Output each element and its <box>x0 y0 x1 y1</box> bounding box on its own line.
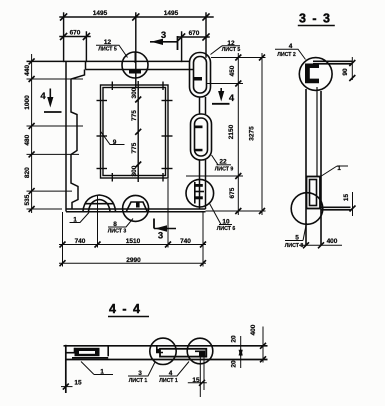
svg-text:4: 4 <box>40 91 46 102</box>
svg-text:12: 12 <box>104 39 112 46</box>
svg-text:8: 8 <box>113 221 117 228</box>
svg-text:90: 90 <box>342 68 349 76</box>
svg-text:ЛИСТ 6: ЛИСТ 6 <box>217 226 236 232</box>
svg-text:3: 3 <box>158 231 163 242</box>
svg-text:670: 670 <box>70 30 81 37</box>
svg-text:535: 535 <box>24 194 31 205</box>
svg-text:740: 740 <box>180 238 191 245</box>
svg-text:4: 4 <box>169 370 173 377</box>
svg-text:2990: 2990 <box>126 257 141 264</box>
svg-text:ЛИСТ 1: ЛИСТ 1 <box>129 378 148 384</box>
svg-text:1495: 1495 <box>93 10 108 17</box>
svg-text:22: 22 <box>219 159 227 166</box>
svg-text:775: 775 <box>131 142 138 153</box>
svg-text:12: 12 <box>227 40 235 47</box>
svg-text:ЛИСТ 3: ЛИСТ 3 <box>108 229 127 235</box>
svg-text:480: 480 <box>24 134 31 145</box>
svg-text:15: 15 <box>343 194 350 202</box>
svg-text:670: 670 <box>189 30 200 37</box>
svg-text:ЛИСТ 5: ЛИСТ 5 <box>98 46 117 52</box>
svg-text:675: 675 <box>229 187 236 198</box>
svg-text:3: 3 <box>138 370 142 377</box>
svg-text:5: 5 <box>295 235 299 242</box>
svg-text:2150: 2150 <box>228 124 235 139</box>
svg-text:9: 9 <box>113 139 117 146</box>
svg-text:1510: 1510 <box>126 238 141 245</box>
svg-text:400: 400 <box>250 324 257 335</box>
svg-text:3: 3 <box>161 30 166 41</box>
svg-text:300: 300 <box>131 87 138 98</box>
svg-text:20: 20 <box>231 335 238 343</box>
svg-text:3275: 3275 <box>249 126 256 141</box>
svg-text:20: 20 <box>231 360 238 368</box>
svg-text:15: 15 <box>74 380 82 387</box>
svg-text:ЛИСТ 1: ЛИСТ 1 <box>159 378 178 384</box>
svg-text:820: 820 <box>24 167 31 178</box>
svg-text:1000: 1000 <box>24 95 31 110</box>
svg-text:740: 740 <box>75 238 86 245</box>
svg-text:15: 15 <box>192 377 200 384</box>
svg-text:440: 440 <box>24 65 31 76</box>
svg-text:4 - 4: 4 - 4 <box>109 302 142 316</box>
svg-text:300: 300 <box>131 165 138 176</box>
svg-text:4: 4 <box>289 43 293 50</box>
svg-text:450: 450 <box>229 65 236 76</box>
svg-text:400: 400 <box>327 238 338 245</box>
svg-text:ЛИСТ 9: ЛИСТ 9 <box>215 167 234 173</box>
svg-text:ЛИСТ 2: ЛИСТ 2 <box>277 52 296 58</box>
svg-text:1: 1 <box>337 165 341 172</box>
svg-text:3 - 3: 3 - 3 <box>299 12 332 26</box>
svg-text:775: 775 <box>131 110 138 121</box>
svg-text:ЛИСТ 5: ЛИСТ 5 <box>222 47 241 53</box>
svg-text:1: 1 <box>100 369 104 376</box>
svg-text:10: 10 <box>222 219 230 226</box>
svg-text:1: 1 <box>73 217 77 224</box>
svg-text:4: 4 <box>229 93 235 104</box>
svg-text:1495: 1495 <box>164 10 179 17</box>
svg-text:ЛИСТ 8: ЛИСТ 8 <box>285 243 304 249</box>
